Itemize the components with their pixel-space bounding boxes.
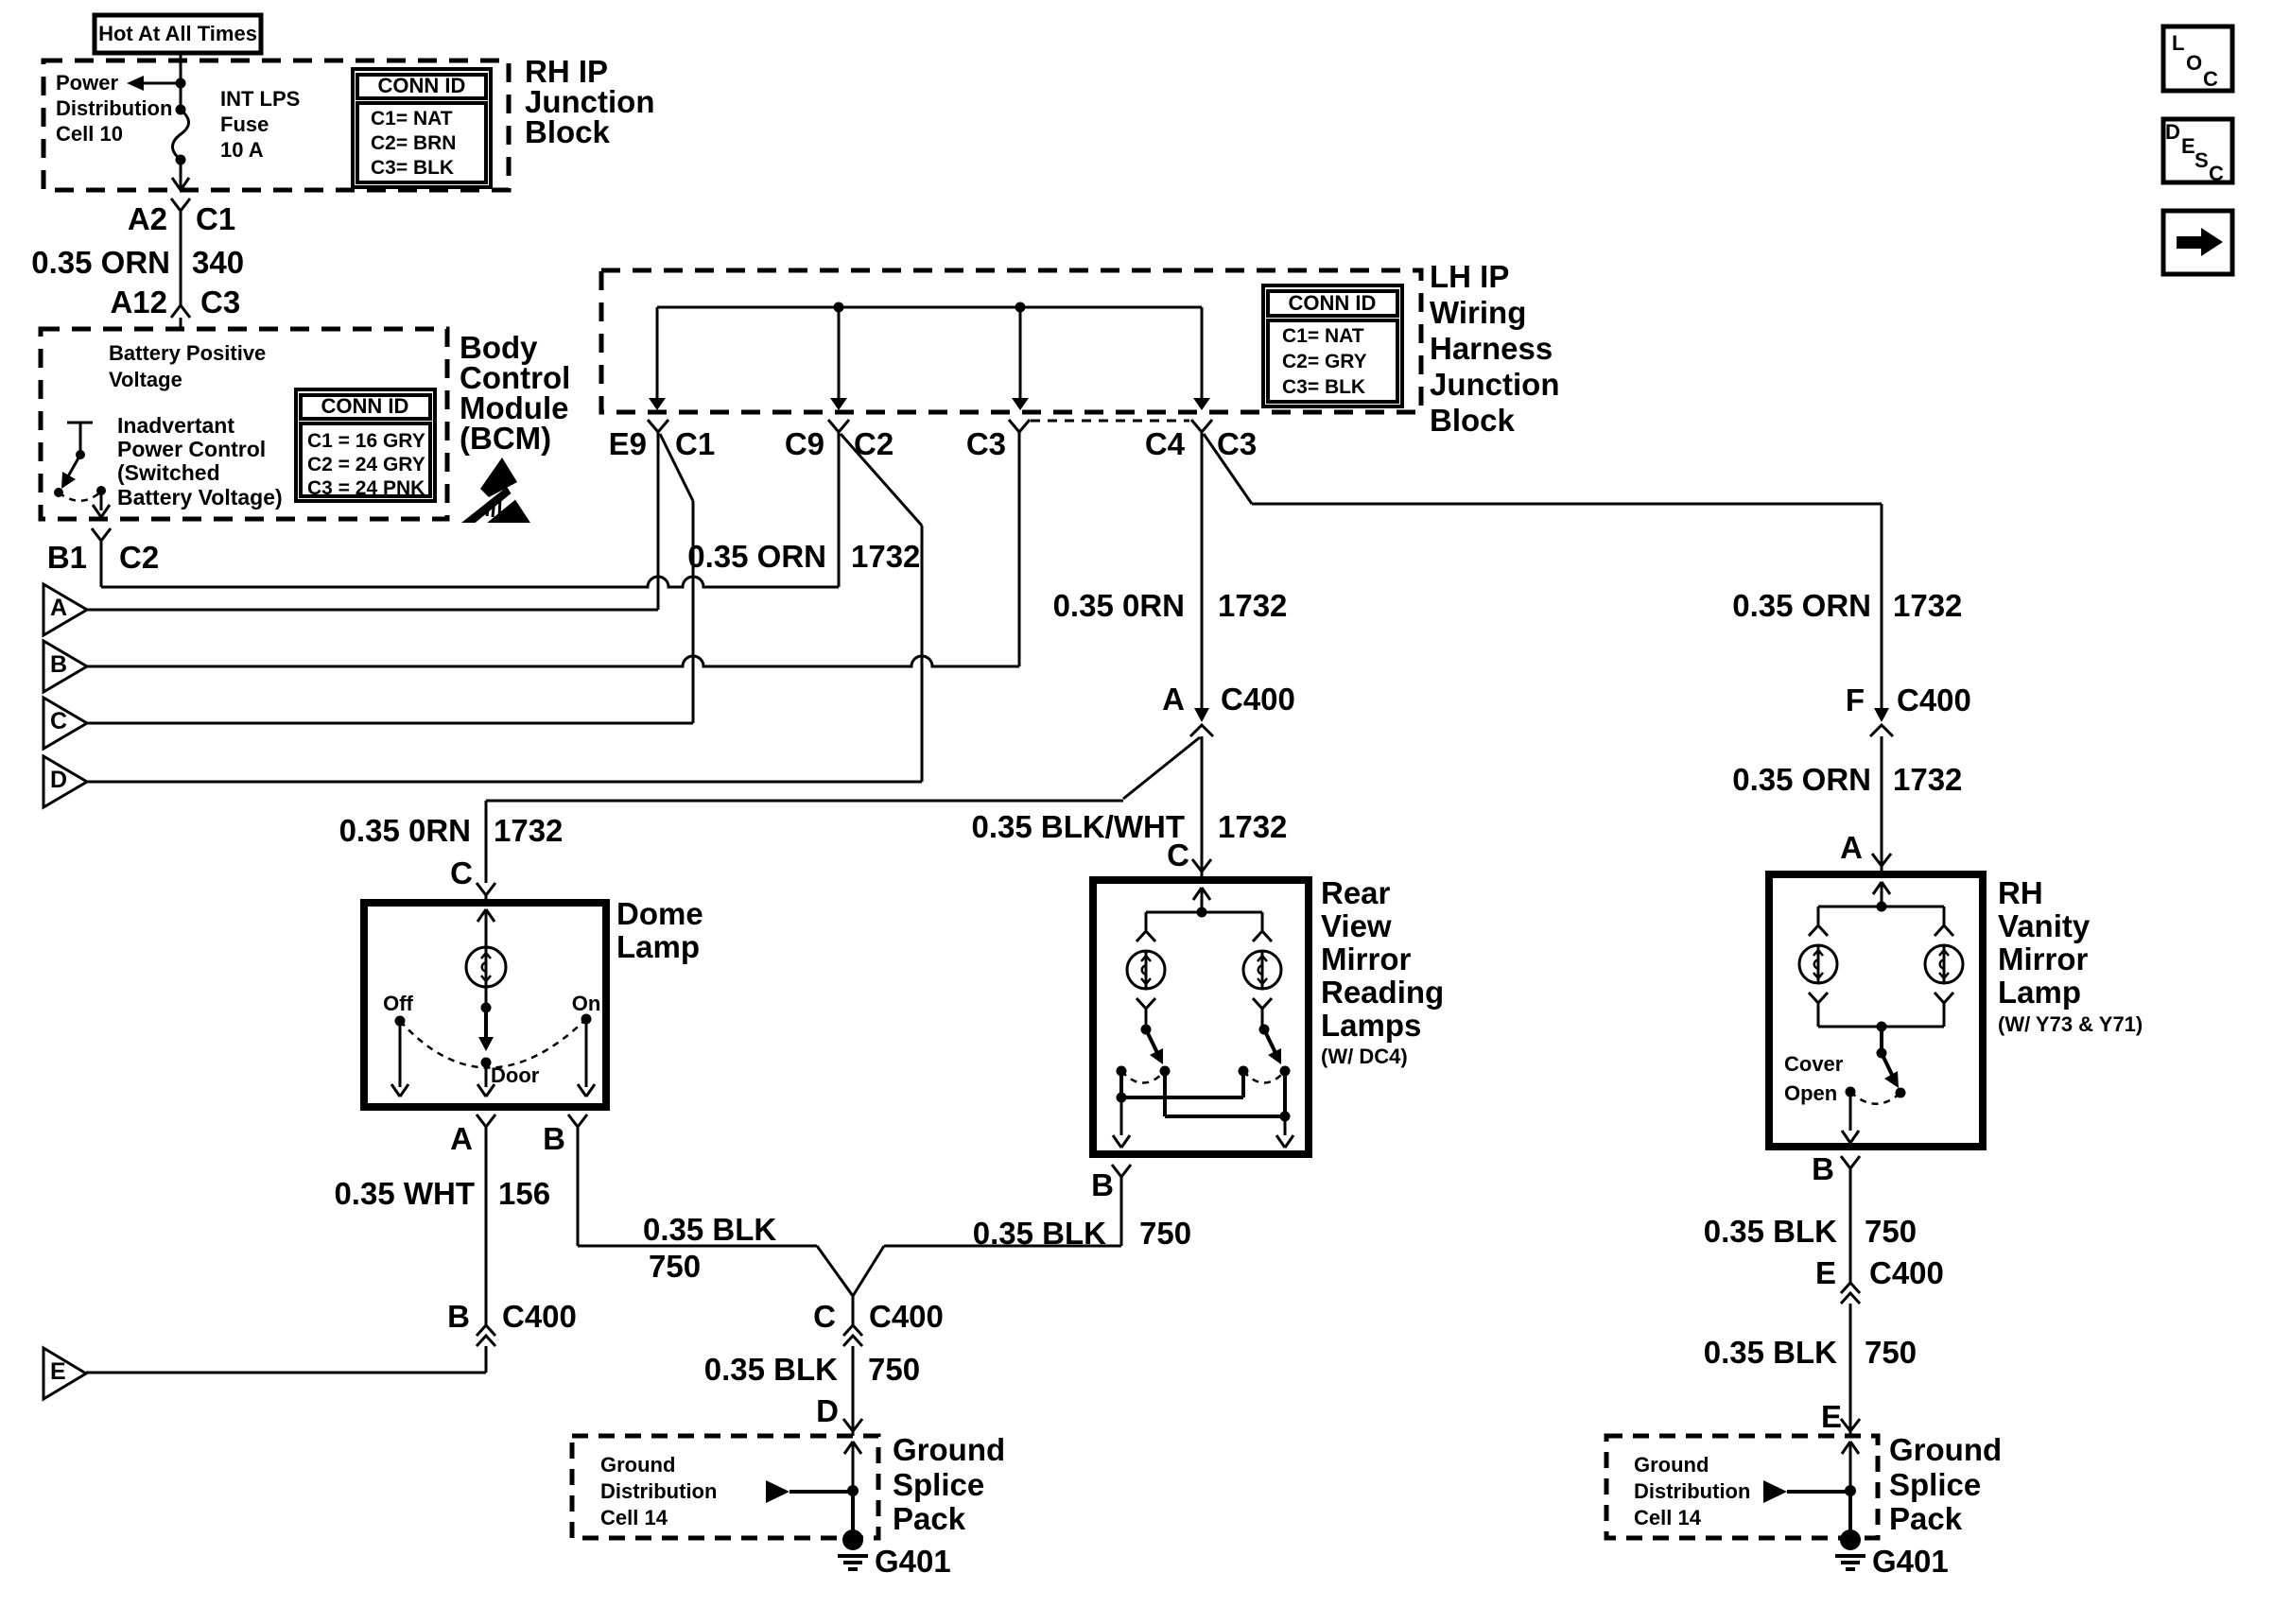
connector C4/C3 chevron	[1191, 420, 1212, 432]
svg-text:CONN ID: CONN ID	[321, 394, 409, 418]
vanity lower bus	[1818, 1026, 1944, 1028]
svg-text:B: B	[1812, 1151, 1834, 1186]
svg-text:LH IP: LH IP	[1430, 259, 1509, 294]
svg-text:C3= BLK: C3= BLK	[371, 157, 454, 179]
CONN ID table (RH IP)	[353, 69, 491, 187]
branch E9 diagonal to C net	[660, 434, 693, 501]
svg-text:Reading: Reading	[1321, 975, 1444, 1010]
svg-text:C3 = 24 PNK: C3 = 24 PNK	[307, 477, 425, 499]
Dome Lamp label	[616, 896, 703, 964]
svg-text:Block: Block	[525, 114, 611, 149]
cover open switch	[1846, 1027, 1906, 1104]
svg-text:Cell 14: Cell 14	[1634, 1506, 1702, 1529]
splice node (left)	[847, 1485, 859, 1496]
vanity internal feed arrow	[1873, 882, 1890, 907]
svg-text:F: F	[1846, 682, 1865, 717]
svg-text:C400: C400	[1221, 682, 1295, 717]
svg-text:0.35 BLK: 0.35 BLK	[704, 1352, 838, 1387]
svg-text:0.35 BLK: 0.35 BLK	[1704, 1335, 1837, 1370]
mirror right lamp lower chevron	[1253, 998, 1272, 1027]
svg-text:750: 750	[868, 1352, 920, 1387]
svg-text:Splice: Splice	[893, 1467, 984, 1502]
connector A at dome	[450, 1114, 495, 1327]
svg-text:Vanity: Vanity	[1998, 908, 2091, 943]
svg-text:(W/ Y73 & Y71): (W/ Y73 & Y71)	[1998, 1012, 2143, 1036]
mirror left switch	[1117, 1025, 1171, 1083]
mirror internal feed arrow	[1193, 888, 1210, 912]
svg-text:E: E	[50, 1358, 66, 1385]
branch C4/C3 diagonal to RH run	[1204, 434, 1252, 504]
wire: fuse to box edge with arrow	[180, 160, 182, 189]
dome branch vertical	[485, 801, 488, 883]
svg-text:D: D	[2165, 120, 2180, 144]
svg-text:On: On	[572, 992, 601, 1015]
svg-text:Splice: Splice	[1889, 1467, 1981, 1502]
svg-text:A: A	[450, 1121, 473, 1156]
svg-text:A: A	[1840, 830, 1863, 865]
svg-text:Ground: Ground	[600, 1453, 675, 1477]
wire below A/C400 to mirror C	[1201, 736, 1204, 872]
svg-text:C: C	[50, 708, 67, 734]
svg-text:E: E	[1815, 1255, 1836, 1290]
mirror left bulb	[1127, 951, 1165, 989]
Ground Splice Pack label (right)	[1889, 1432, 2002, 1536]
svg-text:C1: C1	[196, 201, 235, 236]
connector B at vanity	[1812, 1151, 1860, 1283]
wire C4 down to C400	[1201, 432, 1204, 708]
svg-text:0.35 BLK: 0.35 BLK	[973, 1216, 1106, 1251]
vanity exit arrow	[1842, 1092, 1859, 1143]
svg-text:C3= BLK: C3= BLK	[1282, 376, 1365, 398]
svg-text:0.35 BLK/WHT: 0.35 BLK/WHT	[971, 809, 1185, 844]
mirror right lamp leg	[1253, 912, 1272, 942]
Body Control Module dashed box	[41, 329, 447, 519]
svg-text:Junction: Junction	[1430, 367, 1560, 402]
Rear View Mirror Reading Lamps label	[1321, 875, 1444, 1068]
bus drop C9 with arrow	[830, 307, 847, 410]
svg-text:750: 750	[649, 1249, 701, 1284]
svg-text:1732: 1732	[1218, 588, 1287, 623]
node on bus	[1015, 302, 1026, 313]
connector C9/C2 chevron	[828, 420, 849, 432]
inadvertant power control switch	[54, 423, 110, 517]
svg-text:Rear: Rear	[1321, 875, 1391, 910]
svg-text:(W/ DC4): (W/ DC4)	[1321, 1045, 1408, 1068]
Rear View Mirror Reading Lamps box	[1093, 880, 1309, 1154]
svg-text:C400: C400	[502, 1299, 577, 1334]
RH IP Junction Block label	[525, 54, 655, 149]
bus drop C4 with arrow	[1193, 307, 1210, 410]
wire A to E9/C1	[87, 609, 658, 612]
svg-text:D: D	[816, 1393, 839, 1428]
svg-text:C: C	[1167, 838, 1189, 872]
svg-text:View: View	[1321, 908, 1392, 943]
svg-text:Inadvertant: Inadvertant	[117, 413, 234, 438]
ground G401 symbol (right)	[1835, 1529, 1865, 1569]
svg-text:Battery Positive: Battery Positive	[109, 341, 266, 365]
svg-text:Lamp: Lamp	[1998, 975, 2081, 1010]
svg-text:C1= NAT: C1= NAT	[1282, 325, 1364, 347]
svg-text:Battery Voltage): Battery Voltage)	[117, 485, 283, 510]
node: power distribution tap	[176, 78, 186, 89]
svg-text:Distribution: Distribution	[56, 96, 172, 120]
svg-text:0.35 WHT: 0.35 WHT	[334, 1176, 475, 1211]
dome On contact	[572, 992, 601, 1097]
svg-text:C400: C400	[1897, 682, 1971, 717]
svg-text:(BCM): (BCM)	[460, 421, 551, 456]
svg-text:A: A	[1162, 682, 1185, 717]
vanity left bulb	[1799, 945, 1837, 983]
svg-text:B: B	[50, 651, 67, 678]
svg-text:340: 340	[192, 245, 244, 280]
dome switch travel arc	[400, 1019, 586, 1068]
connector E at ground splice	[1821, 1399, 1860, 1434]
Cover Open label	[1784, 1052, 1844, 1105]
svg-text:C3: C3	[200, 285, 240, 320]
svg-text:1732: 1732	[1893, 762, 1962, 797]
svg-text:Power Control: Power Control	[117, 437, 266, 461]
wire: dot to fuse	[180, 83, 182, 110]
svg-text:Ground: Ground	[1889, 1432, 2002, 1467]
svg-text:Fuse: Fuse	[220, 112, 269, 136]
svg-text:Wiring: Wiring	[1430, 295, 1526, 330]
splice Y right diagonal	[853, 1246, 884, 1296]
Ground Splice Pack dashed box (left)	[572, 1436, 878, 1538]
wire C9/C2 down to B1 wire	[838, 432, 841, 587]
svg-text:D: D	[50, 767, 67, 793]
mirror left lamp leg	[1136, 912, 1155, 942]
dome Off contact	[383, 992, 413, 1097]
svg-text:0.35 ORN: 0.35 ORN	[687, 539, 826, 574]
svg-text:0.35 BLK: 0.35 BLK	[643, 1212, 776, 1247]
connector triangle E	[43, 1348, 86, 1399]
svg-text:1732: 1732	[494, 813, 563, 848]
connector B/C400	[447, 1299, 577, 1373]
RH IP Junction Block dashed box	[43, 60, 509, 190]
node on mirror bus	[1197, 907, 1207, 918]
svg-text:C4: C4	[1145, 426, 1186, 461]
LH IP label	[1430, 259, 1560, 438]
svg-text:L: L	[2172, 31, 2184, 55]
svg-text:750: 750	[1865, 1214, 1917, 1249]
svg-text:0.35 ORN: 0.35 ORN	[1732, 762, 1871, 797]
svg-text:Distribution: Distribution	[1634, 1479, 1750, 1503]
mirror right exit arrow	[1276, 1116, 1293, 1148]
splice Y left diagonal	[817, 1246, 853, 1296]
svg-text:1732: 1732	[1218, 809, 1287, 844]
dome branch horizontal	[486, 800, 1123, 803]
svg-text:Ground: Ground	[893, 1432, 1005, 1467]
BCM label	[460, 330, 570, 456]
svg-text:C: C	[450, 855, 473, 890]
svg-text:1732: 1732	[851, 539, 920, 574]
connector E/C400	[1815, 1255, 1944, 1436]
svg-text:(Switched: (Switched	[117, 460, 220, 485]
svg-text:Door: Door	[491, 1063, 540, 1087]
svg-text:Mirror: Mirror	[1321, 942, 1412, 976]
connector B at mirror	[1091, 1165, 1131, 1246]
vanity right lamp leg	[1935, 907, 1953, 936]
svg-text:750: 750	[1139, 1216, 1191, 1251]
svg-text:0.35 0RN: 0.35 0RN	[1053, 588, 1185, 623]
wire from Hot At All Times into box	[180, 51, 182, 83]
node on vanity lower bus	[1877, 1022, 1887, 1032]
LH IP Wiring Harness Junction Block dashed box	[601, 270, 1421, 412]
mirror right switch	[1239, 1025, 1291, 1083]
wire D branch vertical	[921, 526, 924, 782]
svg-text:750: 750	[1865, 1335, 1917, 1370]
svg-text:Pack: Pack	[893, 1501, 966, 1536]
wire E9/C1 down (A net)	[657, 432, 660, 610]
connector C at dome lamp	[450, 855, 495, 903]
connector A at vanity	[1840, 830, 1891, 874]
svg-text:Hot At All Times: Hot At All Times	[98, 22, 257, 45]
svg-text:CONN ID: CONN ID	[1289, 291, 1377, 315]
mirror left exit arrow	[1113, 1097, 1130, 1148]
svg-text:B: B	[1091, 1167, 1114, 1202]
branch C9 diagonal to D net	[841, 434, 922, 526]
svg-text:C3: C3	[966, 426, 1006, 461]
ground distribution branch (left)	[766, 1480, 853, 1503]
CONN ID table (LH IP)	[1263, 285, 1402, 406]
svg-text:156: 156	[498, 1176, 550, 1211]
connector B1/C2	[92, 528, 111, 587]
wire B1/C2 to C9/C2 with hops	[101, 577, 839, 587]
svg-text:C2: C2	[119, 540, 159, 575]
wire C3 down to B wire	[1018, 432, 1021, 666]
svg-text:0.35 BLK: 0.35 BLK	[1704, 1214, 1837, 1249]
svg-text:C2 = 24 GRY: C2 = 24 GRY	[307, 454, 425, 475]
svg-text:O: O	[2186, 51, 2202, 75]
wire to power distribution arrow	[137, 82, 181, 85]
RH Vanity Mirror Lamp box	[1769, 874, 1983, 1147]
connector triangle D	[43, 756, 87, 807]
svg-text:C1: C1	[675, 426, 715, 461]
wire C branch vertical	[692, 501, 695, 723]
mirror internal bus	[1146, 911, 1262, 914]
svg-text:Cell 10: Cell 10	[56, 122, 123, 146]
node on vanity bus	[1877, 902, 1887, 912]
svg-text:C3: C3	[1217, 426, 1257, 461]
svg-text:C: C	[2203, 67, 2218, 91]
wire B/C400 to E triangle	[86, 1372, 486, 1374]
mirror right bulb	[1243, 951, 1281, 989]
vanity left lamp leg	[1809, 907, 1828, 936]
svg-text:0.35 0RN: 0.35 0RN	[339, 813, 471, 848]
vanity right lamp lower chevron	[1935, 993, 1953, 1027]
svg-text:C1 = 16 GRY: C1 = 16 GRY	[307, 430, 425, 452]
svg-text:Cell 14: Cell 14	[600, 1506, 668, 1529]
svg-text:Harness: Harness	[1430, 331, 1553, 366]
ground G401 symbol (left)	[838, 1529, 868, 1569]
connector C at mirror	[1167, 838, 1211, 880]
fuse INT LPS 10A (S-curve)	[173, 110, 189, 160]
wire D to C9 branch	[87, 781, 922, 784]
vanity left lamp lower chevron	[1809, 993, 1828, 1027]
svg-text:Open: Open	[1784, 1081, 1837, 1105]
svg-text:B: B	[543, 1121, 565, 1156]
Battery Positive Voltage text	[109, 341, 266, 391]
svg-text:A12: A12	[110, 285, 167, 320]
svg-text:C9: C9	[785, 426, 824, 461]
connector D at ground splice	[816, 1393, 862, 1431]
splice pack entry arrow (left)	[844, 1442, 861, 1491]
RH vertical run to F/C400	[1881, 504, 1883, 708]
dome bulb	[466, 947, 506, 987]
connector A2/C1-A12/C3	[171, 199, 190, 318]
connector B at dome	[543, 1114, 587, 1246]
svg-text:Dome: Dome	[616, 896, 703, 931]
svg-text:Distribution: Distribution	[600, 1479, 717, 1503]
svg-text:0.35 ORN: 0.35 ORN	[1732, 588, 1871, 623]
arrow icon box	[2163, 211, 2232, 274]
Ground Distribution Cell 14 text (right)	[1634, 1453, 1750, 1529]
svg-text:C: C	[813, 1299, 836, 1334]
svg-text:INT LPS: INT LPS	[220, 87, 300, 111]
DESC icon box	[2163, 119, 2232, 185]
connector triangle B	[43, 641, 87, 692]
svg-text:Voltage: Voltage	[109, 368, 182, 391]
svg-text:10 A: 10 A	[220, 138, 264, 162]
RH horizontal run	[1252, 503, 1882, 506]
Inadvertant Power Control text	[117, 413, 283, 510]
svg-text:Cover: Cover	[1784, 1052, 1844, 1076]
svg-text:E: E	[1821, 1399, 1842, 1434]
splice node (right)	[1845, 1485, 1856, 1496]
ground distribution branch (right)	[1763, 1480, 1850, 1503]
svg-text:C400: C400	[1869, 1255, 1944, 1290]
svg-text:G401: G401	[1872, 1544, 1949, 1579]
svg-text:C1= NAT: C1= NAT	[371, 108, 453, 130]
svg-text:Block: Block	[1430, 403, 1516, 438]
svg-text:C400: C400	[869, 1299, 944, 1334]
wire B to C3 with hops	[87, 656, 1019, 666]
LH IP internal bus	[657, 306, 1202, 309]
connector E9/C1 chevron	[648, 420, 668, 432]
INT LPS Fuse 10 A text	[220, 87, 300, 162]
node on bus	[834, 302, 844, 313]
svg-text:Ground: Ground	[1634, 1453, 1709, 1477]
svg-text:C2= GRY: C2= GRY	[1282, 351, 1367, 372]
node: fuse top	[176, 105, 186, 115]
svg-text:E9: E9	[609, 426, 647, 461]
svg-text:Off: Off	[383, 992, 413, 1015]
wire C to E9 branch	[87, 722, 693, 725]
svg-text:Pack: Pack	[1889, 1501, 1963, 1536]
Ground Distribution Cell 14 text (left)	[600, 1453, 717, 1529]
CONN ID table (BCM)	[296, 389, 435, 501]
ESD sensitive symbol	[461, 458, 530, 527]
svg-text:A2: A2	[128, 201, 167, 236]
svg-text:RH: RH	[1998, 875, 2043, 910]
svg-text:B1: B1	[47, 540, 87, 575]
splice pack entry arrow (right)	[1842, 1442, 1859, 1491]
svg-text:A: A	[50, 595, 67, 621]
wire F/C400 to vanity A	[1881, 736, 1883, 866]
Hot At All Times label box	[95, 15, 261, 53]
mirror B wire to splice	[884, 1245, 1121, 1248]
svg-text:E: E	[2181, 134, 2195, 158]
connector C3 chevron	[1009, 420, 1030, 432]
node: fuse bottom	[176, 155, 186, 165]
dashed link C3 to C4	[1031, 420, 1189, 423]
Ground Splice Pack label (left)	[893, 1432, 1005, 1536]
svg-text:C2= BRN: C2= BRN	[371, 132, 456, 154]
bus drop C3 with arrow	[1012, 307, 1029, 410]
svg-text:G401: G401	[875, 1544, 951, 1579]
dome switch common	[477, 987, 495, 1097]
arrow to Power Distribution (solid left head)	[127, 76, 144, 91]
diagonal from dome branch to A/C400	[1123, 737, 1200, 799]
svg-text:CONN ID: CONN ID	[378, 74, 466, 97]
connector C/C400	[813, 1296, 944, 1436]
Ground Splice Pack dashed box (right)	[1606, 1436, 1878, 1538]
svg-text:0.35 ORN: 0.35 ORN	[31, 245, 170, 280]
connector F/C400	[1846, 682, 1971, 736]
svg-text:C: C	[2209, 162, 2224, 185]
svg-text:Power: Power	[56, 71, 118, 95]
wire to ground G401 (left)	[851, 1491, 855, 1532]
dome B wire to splice	[578, 1245, 817, 1248]
svg-text:B: B	[447, 1299, 470, 1334]
LOC icon box	[2163, 26, 2232, 91]
connector A/C400	[1162, 682, 1295, 736]
connector triangle A	[43, 584, 87, 635]
svg-text:Lamps: Lamps	[1321, 1008, 1421, 1043]
svg-text:Lamp: Lamp	[616, 929, 700, 964]
connector triangle C	[43, 698, 87, 749]
mirror crossover wiring	[1117, 1071, 1291, 1122]
dome internal feed arrow	[477, 909, 495, 947]
bus drop E9 with arrow	[649, 307, 666, 410]
svg-text:1732: 1732	[1893, 588, 1962, 623]
wire into BCM	[180, 318, 182, 329]
wire to ground G401 (right)	[1848, 1491, 1852, 1532]
vanity right bulb	[1925, 945, 1963, 983]
vanity top bus	[1818, 906, 1944, 908]
mirror left lamp lower chevron	[1136, 998, 1155, 1027]
Dome Lamp box	[364, 903, 606, 1107]
RH Vanity Mirror Lamp label	[1998, 875, 2143, 1036]
svg-text:Mirror: Mirror	[1998, 942, 2089, 976]
svg-text:S: S	[2195, 148, 2209, 172]
Power Distribution Cell 10 text	[56, 71, 172, 146]
